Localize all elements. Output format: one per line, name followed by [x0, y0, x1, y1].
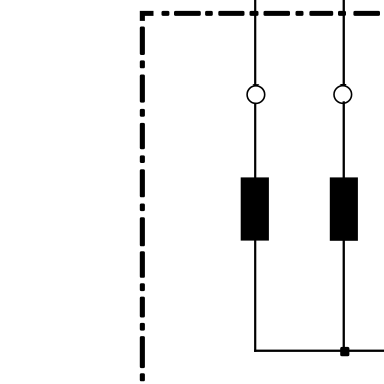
- dot: [140, 155, 145, 163]
- dot: [140, 283, 145, 291]
- dot: [140, 373, 145, 381]
- resistor R2 (filled rectangle): [330, 177, 358, 240]
- dash: [140, 27, 145, 56]
- dash: [218, 11, 244, 16]
- wire: left feeder middle segment: [254, 103, 256, 178]
- dash: [174, 11, 201, 16]
- dot: [296, 11, 304, 16]
- resistor R1 (filled rectangle): [241, 177, 269, 240]
- circle device U2 (instrument): [334, 86, 352, 104]
- dot: [338, 11, 346, 16]
- dot: [250, 11, 259, 16]
- enclosure boundary: top edge dash-dot line: [140, 11, 380, 21]
- dash: [140, 169, 145, 197]
- dot: [140, 60, 145, 68]
- wire: right feeder top segment: [343, 0, 345, 86]
- dot: [140, 323, 145, 331]
- dash: [140, 123, 145, 149]
- wire: bottom bus: [254, 350, 384, 352]
- dash: [264, 11, 291, 16]
- dash: [309, 11, 333, 16]
- wire: right feeder bottom segment: [343, 241, 345, 351]
- dash: [353, 11, 380, 16]
- dot: [205, 11, 213, 16]
- wedge where wire meets circle U1 apex: [252, 84, 259, 86]
- dash: [140, 217, 145, 246]
- wire: left feeder bottom segment: [254, 241, 256, 352]
- dot: [162, 11, 170, 16]
- dot: [140, 109, 145, 117]
- wire: left feeder top segment: [254, 0, 256, 86]
- wedge where wire meets circle U2 apex: [340, 84, 347, 86]
- dash: [140, 297, 145, 318]
- dash: [140, 75, 145, 103]
- dash: [140, 336, 145, 368]
- dash: [140, 251, 145, 278]
- wire: right feeder middle segment: [343, 101, 345, 178]
- circle device U1 (instrument): [247, 86, 265, 104]
- junction node (solid square dot): [340, 347, 349, 356]
- enclosure boundary: left edge dash-dot line: [140, 27, 145, 382]
- dot: [140, 204, 145, 212]
- corner dash (L-piece): [140, 11, 154, 21]
